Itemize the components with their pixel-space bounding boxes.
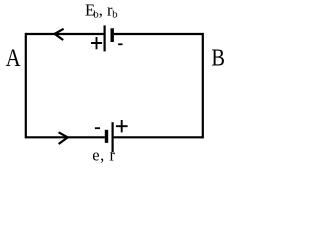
wire top-right segment (114, 33, 203, 35)
battery e negative plate (short) (105, 130, 108, 143)
current arrow (top wire, pointing left) (55, 29, 64, 40)
battery Eb minus sign (118, 43, 122, 45)
current arrow (bottom wire, pointing right) (59, 132, 68, 144)
wire bottom-right segment (114, 136, 203, 138)
wire right side (202, 33, 204, 138)
wire top-left segment (26, 33, 104, 35)
battery Eb plus sign (91, 37, 102, 49)
wire left side A-B (25, 33, 27, 138)
wire bottom-left segment (26, 136, 105, 138)
svg-text:A: A (6, 44, 21, 72)
battery e plus sign (116, 120, 128, 132)
svg-text:e, r: e, r (92, 146, 115, 165)
svg-text:B: B (211, 44, 225, 71)
battery Eb negative plate (short) (110, 28, 113, 42)
battery e positive plate (long) (111, 122, 113, 152)
battery Eb positive plate (long) (103, 25, 105, 51)
battery e minus sign (95, 127, 100, 129)
